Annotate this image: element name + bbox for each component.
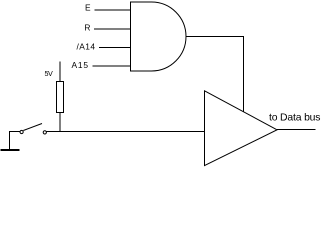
svg-text:E: E <box>85 2 91 12</box>
wire: AND output horizontal <box>186 36 244 38</box>
svg-text:/A14: /A14 <box>77 41 96 51</box>
wire: R input to AND gate <box>94 28 131 30</box>
tri-state buffer U2 <box>205 91 278 166</box>
switch S1 arm <box>23 124 42 131</box>
wire: switch to buffer input <box>47 131 204 133</box>
svg-text:5V: 5V <box>45 69 54 78</box>
svg-text:R: R <box>84 22 90 32</box>
wire: E input to AND gate <box>95 9 131 11</box>
ground <box>1 149 20 151</box>
wire: /A14 input to AND gate <box>99 47 131 49</box>
wire: 5V lead to resistor <box>59 62 61 82</box>
AND gate U1 (4-input) <box>131 2 187 71</box>
wire: ground drop <box>9 131 11 150</box>
wire: buffer output <box>277 129 316 131</box>
wire: switch to ground stub <box>10 131 20 133</box>
svg-text:to Data bus: to Data bus <box>269 113 321 124</box>
switch S1 right contact <box>43 131 46 134</box>
wire: resistor lower lead to bus wire <box>59 113 61 133</box>
resistor R1 (pull-up) <box>57 82 64 113</box>
wire: A15 input to AND gate <box>93 65 131 67</box>
switch S1 left contact <box>20 130 23 133</box>
svg-text:A15: A15 <box>72 60 89 70</box>
wire: enable drop to buffer <box>243 36 245 112</box>
